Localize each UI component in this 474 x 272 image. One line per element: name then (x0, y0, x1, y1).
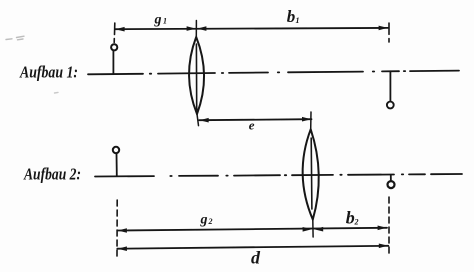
svg-text:e: e (249, 118, 255, 133)
optical axis 2 (95, 174, 462, 177)
image pin I1 (387, 72, 394, 109)
label b1 (287, 7, 300, 26)
lens L2 (303, 129, 319, 219)
svg-text:g: g (154, 13, 162, 28)
lens L1 centerline extensions (196, 21, 198, 126)
arrowheads (115, 27, 124, 32)
dimension line g1-b1 (114, 23, 389, 43)
image pin I2 (388, 175, 395, 188)
label Aufbau 1 (19, 63, 78, 82)
svg-text:1: 1 (296, 16, 300, 25)
svg-text:Aufbau 2:: Aufbau 2: (23, 165, 81, 184)
object pin O2 (113, 147, 119, 176)
label e (249, 118, 255, 133)
label Aufbau 2 (23, 165, 81, 184)
optical axis 1 (88, 71, 459, 75)
label g2 (200, 213, 213, 228)
svg-text:2: 2 (208, 217, 213, 226)
dimension line d (117, 244, 388, 252)
svg-text:b: b (346, 208, 355, 228)
tick left (114, 23, 116, 35)
svg-text:Aufbau 1:: Aufbau 1: (19, 63, 78, 82)
svg-text:1: 1 (163, 17, 167, 26)
svg-text:d: d (251, 248, 261, 268)
svg-text:2: 2 (354, 218, 359, 227)
label g1 (154, 13, 168, 28)
dashed extension line right (388, 197, 390, 254)
svg-text:b: b (287, 7, 296, 26)
lens L2 centerline extensions (311, 112, 313, 237)
object pin O1 (111, 44, 117, 74)
lens L1 (189, 37, 204, 114)
pencil smudge top-left (6, 36, 58, 93)
svg-text:g: g (200, 213, 208, 228)
dimension line e (199, 117, 311, 123)
label b2 (346, 208, 359, 228)
tick right (388, 23, 390, 34)
dashed extension line left (116, 200, 118, 256)
label d (251, 248, 261, 268)
dimension line g2-b2 (117, 226, 387, 233)
